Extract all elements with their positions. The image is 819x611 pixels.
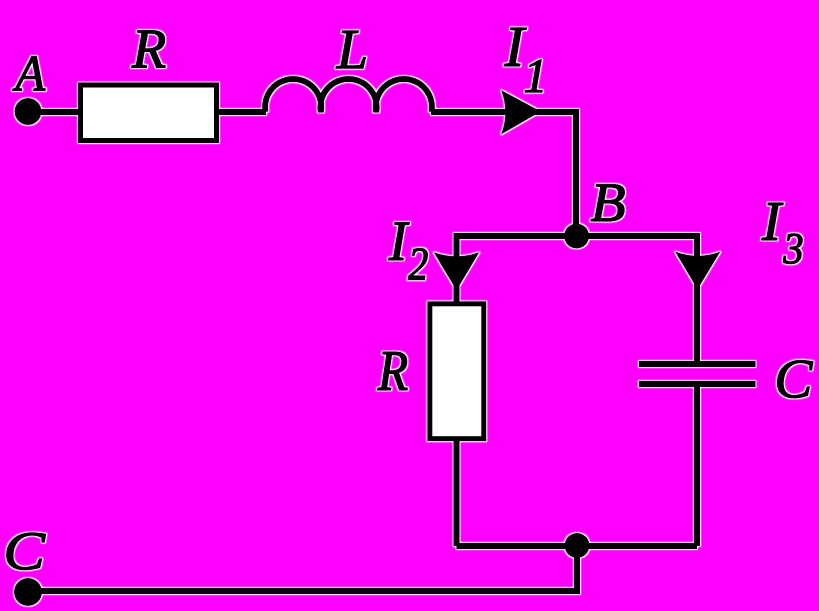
wire A to R (28, 109, 82, 115)
node B (564, 224, 589, 249)
wire capacitor to bottom rail (694, 384, 700, 546)
resistor R1 (81, 85, 217, 141)
current arrow I2 (434, 252, 480, 291)
node A (15, 98, 42, 125)
capacitor C plates (639, 364, 756, 384)
wire junction down and left to node C (28, 546, 577, 591)
label current I3 (762, 203, 802, 264)
resistor R2 (430, 304, 484, 439)
current arrow I1 (501, 90, 541, 135)
label current I2 (389, 223, 428, 280)
node C (14, 578, 42, 606)
current arrow I3 (675, 252, 721, 290)
wire L to node B corner (431, 112, 576, 236)
label node C (7, 533, 46, 570)
label inductor L (336, 31, 365, 68)
wire R1 to L (217, 109, 266, 115)
label current I1 (504, 28, 542, 92)
wire node B to right branch (576, 236, 697, 364)
label node A (13, 57, 46, 91)
wire node B to left branch (457, 236, 577, 303)
label resistor R1 value R (132, 31, 166, 68)
label node B (591, 185, 624, 221)
wire R2 to bottom rail (454, 438, 460, 546)
node junction bottom (565, 533, 590, 558)
inductor L (265, 79, 432, 112)
label resistor R2 value R (378, 352, 408, 390)
label capacitor value C (778, 360, 813, 397)
wire bottom rail of parallel loop (457, 543, 698, 549)
